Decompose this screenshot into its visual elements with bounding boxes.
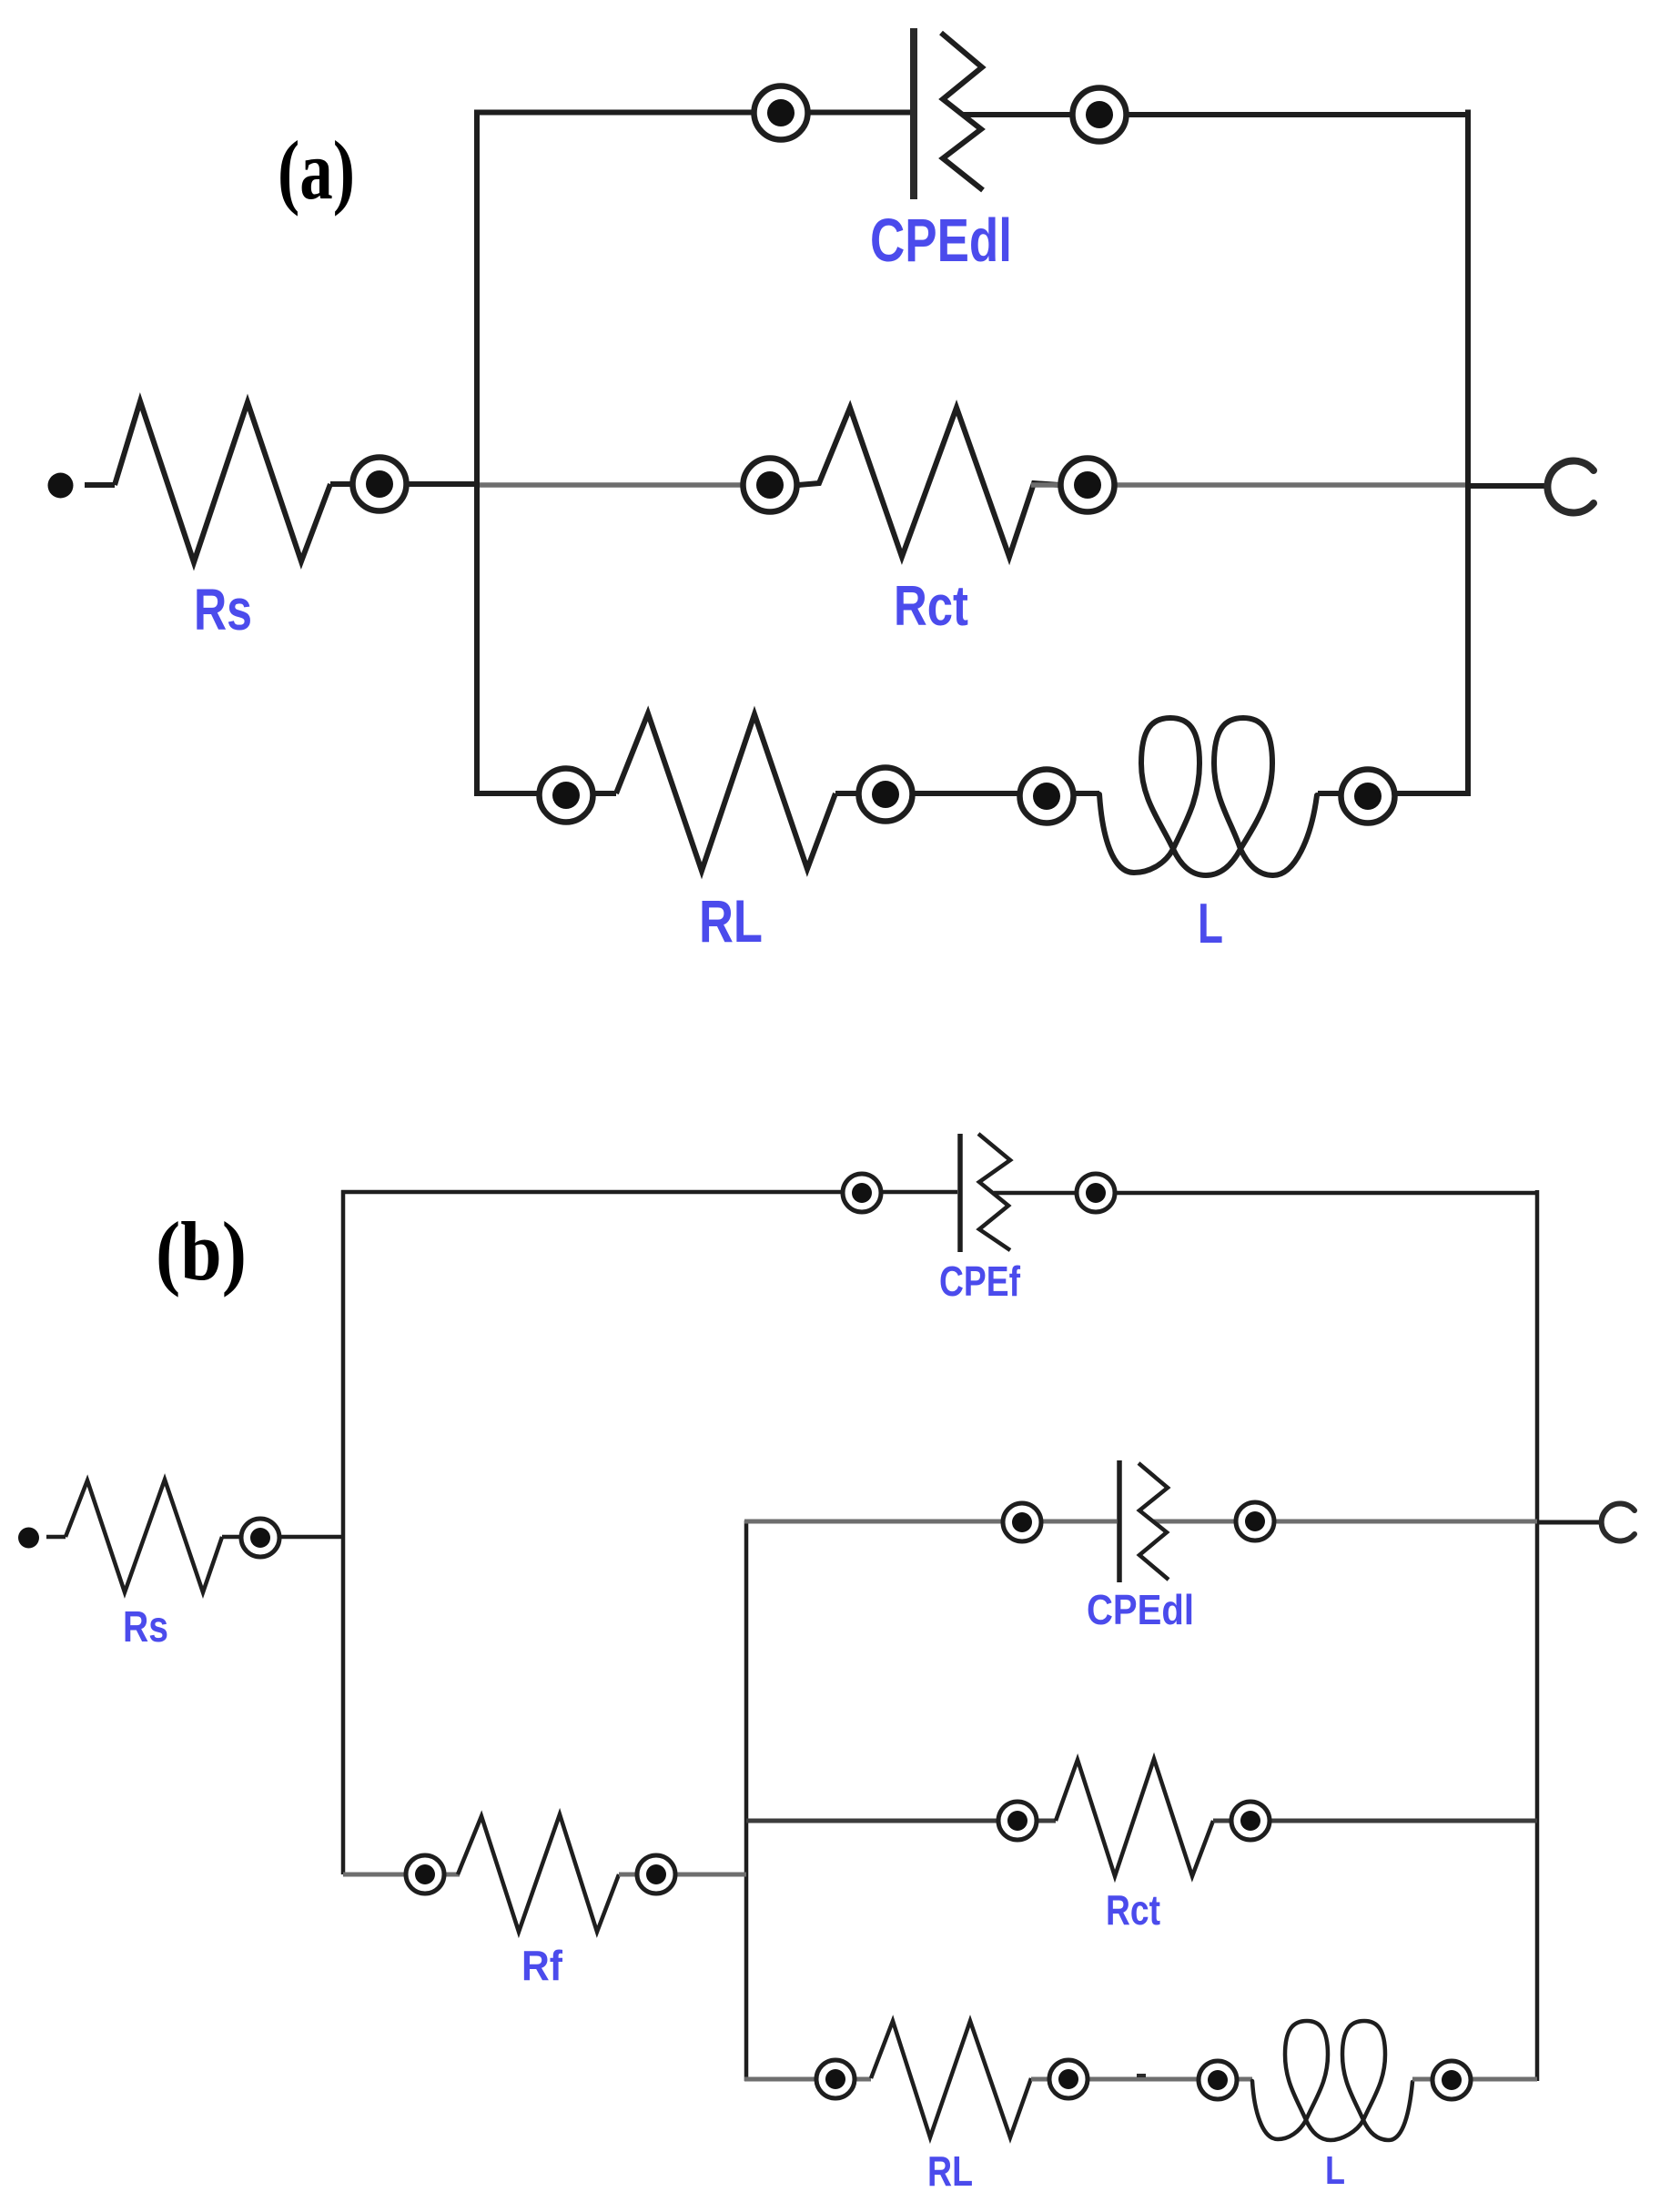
wire Rs to box (a) [330,481,477,487]
svg-text:CPEdl: CPEdl [1087,1586,1194,1633]
resistor RL (b) [871,2021,1031,2137]
node right of L (a) [1341,770,1395,823]
node left of Rct (a) [744,459,797,512]
node left of CPEf (b) [843,1174,881,1212]
node top-right of CPEdl (a) [1073,88,1127,142]
node left of L (b) [1199,2061,1237,2099]
wire main branch left (a) [477,482,801,488]
bottom branch wire right (b) [1412,2077,1537,2082]
top branch wire left (b) [341,1190,957,1195]
inductor L (a) [1099,718,1317,875]
svg-text:RL: RL [699,887,763,954]
node after Rs (a) [353,458,407,511]
CPEdl plate bar (a) [910,28,917,199]
node right of RL (b) [1049,2060,1088,2098]
node right of Rct (b) [1231,1802,1270,1840]
bottom branch wire left (b) [744,2077,871,2082]
svg-text:L: L [1198,893,1223,955]
svg-text:L: L [1325,2148,1345,2193]
svg-text:CPEdl: CPEdl [870,207,1012,275]
resistor Rs (b) [66,1480,222,1592]
wire input to Rs (a) [85,482,115,488]
svg-text:Rct: Rct [1106,1886,1160,1934]
top branch wire right (a) [962,112,1471,117]
svg-text:(a): (a) [278,124,355,217]
output terminal C (a) [1547,461,1594,513]
CPEf plate bar (b) [957,1134,963,1252]
svg-text:Rs: Rs [194,577,252,642]
svg-text:Rf: Rf [521,1942,563,1989]
CPEdl zigzag (a) [941,33,983,190]
resistor Rct (b) [1056,1759,1213,1876]
wire main branch right (a) [1031,482,1468,488]
node right of Rf (b) [637,1855,675,1894]
output terminal C (b) [1602,1504,1635,1541]
Rct branch wire right (b) [1213,1819,1537,1823]
Rf branch wire right (b) [619,1873,746,1877]
node left of RL (b) [816,2060,855,2098]
CPEf zigzag (b) [978,1134,1010,1250]
bottom branch wire right (a) [1318,791,1471,796]
svg-text:Rs: Rs [123,1603,168,1651]
top branch wire right (b) [994,1191,1539,1196]
svg-text:RL: RL [927,2147,973,2195]
outer box right vertical wire (b) [1535,1190,1540,2081]
input terminal dot (b) [18,1528,39,1549]
CPEdl zigzag (b) [1139,1463,1169,1580]
inductor L (b) [1252,2021,1412,2140]
svg-text:CPEf: CPEf [939,1258,1021,1305]
top branch wire left (a) [474,110,910,116]
node left of CPEdl (b) [1003,1503,1041,1541]
resistor Rf (b) [458,1814,619,1932]
outer box left vertical wire (b) [341,1190,346,1874]
svg-text:Rct: Rct [894,575,968,638]
CPEdl plate bar (b) [1117,1460,1122,1582]
node right of L (b) [1432,2061,1471,2099]
node top-left of CPEdl (a) [754,86,808,140]
wire input to Rs (b) [46,1535,66,1540]
node left of RL (a) [540,769,593,823]
input terminal dot (a) [48,473,74,499]
wire stub to output terminal (a) [1468,483,1548,489]
node after Rs (b) [241,1519,279,1557]
CPEdl branch wire left (b) [744,1520,1117,1524]
resistor Rs (a) [115,401,330,562]
resistor RL (a) [616,713,835,871]
wire Rs to outer box (b) [222,1535,345,1540]
node right of RL (a) [859,768,913,822]
node right of CPEdl (b) [1236,1502,1274,1540]
resistor Rct (a) [798,408,1059,557]
CPEdl branch wire right (b) [1153,1520,1537,1524]
Rct branch wire left (b) [746,1819,1056,1823]
node right of Rct (a) [1061,459,1115,512]
box right vertical wire (a) [1465,110,1471,797]
node left of Rct (b) [998,1802,1037,1840]
bottom branch wire left (a) [474,791,616,796]
inner box left vertical wire (b) [744,1520,749,2081]
bottom branch wire middle (a) [835,791,1099,796]
svg-text:(b): (b) [156,1205,247,1298]
Rf branch wire left (b) [343,1873,460,1877]
bottom branch wire middle (b) [1031,2077,1252,2082]
node right of CPEf (b) [1077,1174,1115,1212]
node left of L (a) [1020,770,1074,823]
box left vertical wire (a) [474,110,480,797]
wire stub to output terminal (b) [1537,1520,1600,1525]
junction tick on wire between RL and L (b) [1137,2074,1146,2077]
node left of Rf (b) [406,1855,444,1894]
